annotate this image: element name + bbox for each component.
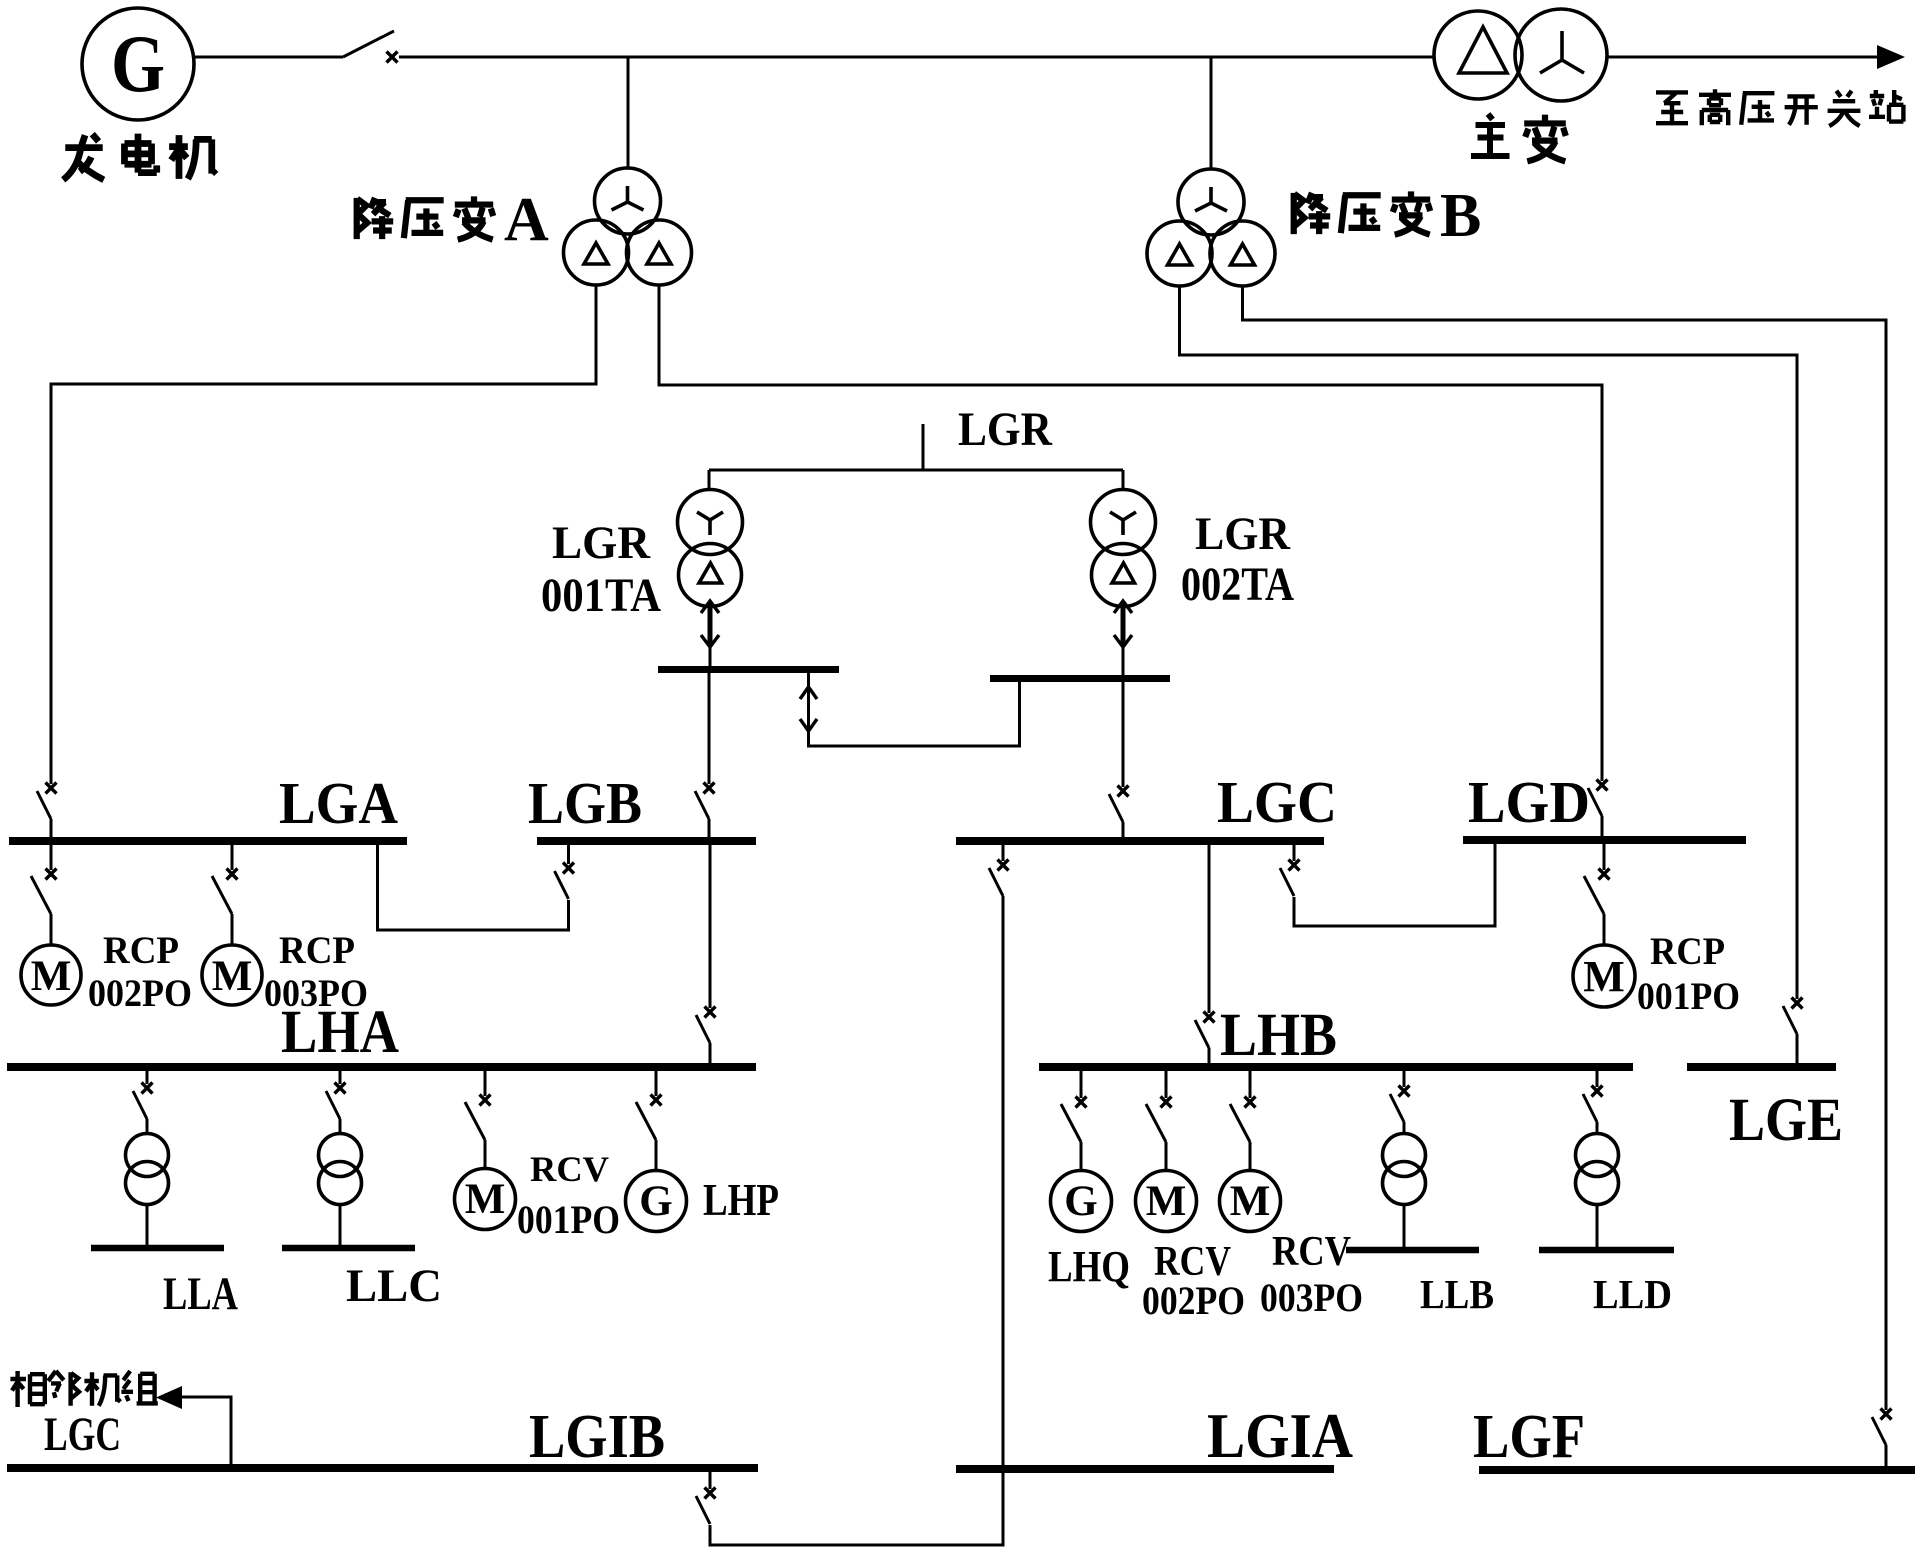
wire to adjacent unit with arrow: [156, 1386, 231, 1464]
label RCP 001PO: [1637, 930, 1740, 1018]
svg-text:003PO: 003PO: [1260, 1275, 1363, 1320]
wire to LLD transformer: [1596, 1122, 1599, 1134]
svg-text:LHB: LHB: [1220, 1002, 1337, 1069]
plug connector 001TA: [701, 601, 719, 647]
generator G LHQ: [1051, 1171, 1112, 1232]
wire drop to step-down transformer B: [1210, 57, 1213, 169]
label RCP 003PO: [264, 929, 368, 1015]
svg-text:RCP: RCP: [279, 929, 355, 972]
svg-text:002PO: 002PO: [88, 972, 192, 1015]
switch RCV 001PO: [465, 1095, 491, 1141]
wire 降压变A right winding to LGD riser: [659, 285, 1602, 781]
motor M RCP 002PO: [21, 945, 81, 1005]
main transformer 主变: [1434, 9, 1607, 101]
wire transformer to LLB bus: [1403, 1204, 1406, 1247]
label 发电机: [63, 134, 216, 180]
wire to LLA transformer: [146, 1119, 149, 1134]
wire connector to bus: [709, 647, 712, 666]
feeder RCP 003PO stub: [231, 844, 234, 870]
switch LGB incoming: [695, 783, 715, 820]
svg-text:G: G: [1064, 1178, 1097, 1225]
motor M RCV 001PO: [455, 1169, 516, 1230]
label LGE: [1729, 1087, 1843, 1154]
bus LGF: [1479, 1466, 1915, 1474]
wire main generator bus duct: [399, 56, 1434, 59]
label LGB: [528, 770, 642, 836]
label LGIB: [529, 1403, 665, 1471]
wire tie switch stub: [1293, 844, 1296, 861]
feeder RCP 002PO stub: [50, 844, 53, 870]
wire drop to step-down transformer A: [627, 57, 630, 168]
wire transformer to LLA bus: [146, 1204, 149, 1246]
feeder RCP 001PO stub: [1603, 843, 1606, 870]
wire 降压变A left winding to LGA riser: [51, 285, 596, 784]
switch LLA: [133, 1083, 153, 1120]
label LHQ: [1048, 1242, 1130, 1291]
wire transformer to LLC bus: [339, 1204, 342, 1246]
svg-text:RCP: RCP: [1650, 930, 1725, 973]
feeder LLD stub: [1596, 1071, 1599, 1087]
label 相邻机组: [10, 1371, 157, 1407]
svg-text:LGD: LGD: [1468, 769, 1590, 835]
svg-text:M: M: [212, 953, 253, 1000]
wire switch to LHA bus: [709, 1043, 712, 1063]
bus LLA: [91, 1245, 224, 1252]
label LLA: [163, 1268, 238, 1320]
wire 降压变B left winding to LGE riser: [1180, 285, 1798, 999]
wire to LLC transformer: [339, 1119, 342, 1134]
wire to generator: [655, 1140, 658, 1172]
label LLC: [346, 1260, 442, 1312]
label LGC adjacent: [44, 1408, 121, 1461]
switch LGC downtie: [989, 860, 1009, 897]
motor M RCV 002PO: [1136, 1171, 1197, 1232]
svg-text:LGIA: LGIA: [1207, 1400, 1353, 1471]
wire transformer to LLD bus: [1596, 1204, 1599, 1247]
switch LGC-LGD tie: [1280, 860, 1300, 897]
svg-text:LGF: LGF: [1473, 1403, 1585, 1471]
switch LLB: [1390, 1086, 1410, 1123]
label 主变: [1471, 114, 1566, 161]
switch LLC: [326, 1083, 346, 1120]
wire to motor: [50, 914, 53, 946]
bus LGIA: [956, 1465, 1334, 1473]
switch LLD: [1583, 1086, 1603, 1123]
transformer LLC: [319, 1134, 362, 1205]
label LHA: [281, 999, 399, 1066]
switch RCP 001PO: [1584, 869, 1610, 915]
wire LGC-LGD tie: [1294, 844, 1495, 926]
wire transformer to HV switchyard with arrow: [1607, 45, 1905, 69]
label LGR: [958, 403, 1053, 456]
transformer LGR 002TA: [1091, 490, 1156, 607]
svg-text:LGA: LGA: [279, 770, 398, 836]
wire LGR distribution: [709, 469, 1123, 472]
wire to motor: [1603, 914, 1606, 946]
svg-text:LGIB: LGIB: [529, 1403, 665, 1471]
svg-text:LLD: LLD: [1593, 1271, 1672, 1317]
wire LGC to LGIA and LGIB loop: [710, 896, 1003, 1545]
bus LLB: [1346, 1247, 1479, 1254]
svg-text:LLC: LLC: [346, 1260, 442, 1312]
svg-text:LGC: LGC: [44, 1408, 121, 1461]
feeder RCV 003PO stub: [1249, 1071, 1252, 1098]
transformer 降压变A: [564, 168, 692, 285]
svg-text:LLA: LLA: [163, 1268, 238, 1320]
wire LGR to 001TA: [708, 470, 711, 491]
label RCV 002PO: [1142, 1239, 1245, 1323]
wire to LLB transformer: [1403, 1122, 1406, 1134]
label LGR 002TA: [1181, 508, 1294, 611]
label LHP: [703, 1174, 779, 1225]
feeder RCV 001PO stub: [484, 1071, 487, 1096]
wire tie switch stub: [567, 844, 570, 864]
wire to motor: [1249, 1142, 1252, 1170]
wire switch to LGB bus: [708, 819, 711, 838]
switch RCV 002PO: [1146, 1097, 1172, 1143]
wire transfer tie left: [809, 673, 1020, 746]
label LHB: [1220, 1002, 1337, 1069]
svg-text:G: G: [111, 18, 165, 109]
svg-text:002PO: 002PO: [1142, 1278, 1245, 1323]
wire to motor: [231, 914, 234, 946]
bus LGB transfer section: [658, 666, 839, 673]
bus LGB: [537, 837, 756, 845]
wire connector to bus: [1122, 647, 1125, 675]
wire switch to LGD bus: [1601, 816, 1604, 837]
switch LHQ: [1061, 1097, 1087, 1143]
svg-text:LGB: LGB: [528, 770, 642, 836]
label RCV 003PO: [1260, 1229, 1363, 1320]
label LLB: [1420, 1271, 1494, 1317]
svg-text:RCV: RCV: [530, 1149, 609, 1189]
switch RCP 003PO: [212, 869, 238, 915]
svg-text:M: M: [31, 953, 72, 1000]
svg-text:M: M: [465, 1176, 506, 1223]
wire LGC to LHB: [1208, 844, 1211, 1013]
transformer LLB: [1383, 1134, 1426, 1205]
svg-text:RCV: RCV: [1272, 1229, 1351, 1275]
bus LGC: [956, 837, 1324, 845]
svg-text:001PO: 001PO: [1637, 975, 1740, 1018]
feeder LHQ stub: [1080, 1071, 1083, 1098]
transformer LLA: [126, 1134, 169, 1205]
label LGC: [1217, 769, 1337, 835]
switch LGF incoming: [1872, 1409, 1892, 1446]
wire switch to LGC bus: [1122, 822, 1125, 839]
svg-text:LHP: LHP: [703, 1174, 779, 1225]
transformer LGR 001TA: [678, 490, 743, 607]
label LGR 001TA: [541, 517, 661, 622]
feeder LLA stub: [146, 1071, 149, 1084]
feeder RCV 002PO stub: [1165, 1071, 1168, 1098]
wire transfer bus to LGC switch: [1122, 682, 1125, 787]
bus LLC: [282, 1245, 415, 1252]
switch RCP 002PO: [31, 869, 57, 915]
switch LHP: [636, 1095, 662, 1141]
bus LHB: [1039, 1063, 1633, 1071]
plug connector transfer tie: [800, 687, 817, 731]
wire LGB to LHA: [709, 844, 712, 1008]
bus LGA: [9, 837, 407, 845]
wire 降压变B right winding to LGF riser: [1243, 285, 1887, 1410]
disconnector generator breaker: [343, 31, 398, 63]
wire LGR to 002TA: [1122, 470, 1125, 491]
switch LHA incoming: [696, 1007, 716, 1044]
switch LGA incoming: [37, 783, 57, 820]
plug connector 002TA: [1114, 601, 1132, 647]
switch LHB incoming: [1195, 1012, 1215, 1049]
feeder LGC downtie stub: [1002, 844, 1005, 861]
label LGA: [279, 770, 398, 836]
label LGF: [1473, 1403, 1585, 1471]
label LLD: [1593, 1271, 1672, 1317]
wire transfer bus to LGB switch: [708, 673, 711, 784]
svg-text:LGE: LGE: [1729, 1087, 1843, 1154]
svg-text:LLB: LLB: [1420, 1271, 1494, 1317]
svg-text:001TA: 001TA: [541, 569, 661, 622]
switch RCV 003PO: [1230, 1097, 1256, 1143]
transformer LLD: [1576, 1134, 1619, 1205]
svg-text:LGR: LGR: [1195, 508, 1291, 560]
switch LGA-LGB tie: [555, 863, 575, 900]
svg-text:LHA: LHA: [281, 999, 399, 1066]
bus LGE: [1687, 1063, 1836, 1071]
label 至高压开关站: [1656, 89, 1903, 126]
svg-text:A: A: [504, 186, 549, 254]
switch LGD incoming: [1588, 780, 1608, 817]
wire switch to LHB bus: [1208, 1048, 1211, 1063]
generator G LHP: [626, 1171, 687, 1232]
generator G: [82, 8, 194, 120]
svg-text:M: M: [1230, 1178, 1271, 1225]
motor M RCP 003PO: [202, 945, 262, 1005]
svg-text:RCP: RCP: [103, 929, 179, 972]
svg-text:G: G: [639, 1178, 672, 1225]
wire to motor: [484, 1140, 487, 1168]
wire switch to LGA bus: [50, 819, 53, 838]
switch LGIB tie: [696, 1488, 716, 1525]
wire switch to LGE bus: [1796, 1034, 1799, 1063]
bus LGC transfer section: [990, 675, 1170, 682]
feeder LHP stub: [655, 1071, 658, 1096]
svg-text:LGR: LGR: [958, 403, 1053, 456]
transformer 降压变B: [1147, 169, 1275, 286]
svg-text:LHQ: LHQ: [1048, 1242, 1130, 1291]
switch LGC incoming: [1109, 786, 1129, 823]
wire generator to disconnector: [194, 56, 343, 59]
feeder LLB stub: [1403, 1071, 1406, 1087]
svg-text:LGC: LGC: [1217, 769, 1337, 835]
label 降压变B: [1294, 182, 1482, 250]
svg-text:001PO: 001PO: [517, 1197, 620, 1242]
bus LGIB: [7, 1464, 758, 1472]
bus LGD: [1463, 836, 1746, 844]
wire to motor: [1165, 1142, 1168, 1170]
svg-text:002TA: 002TA: [1181, 558, 1294, 611]
label LGD: [1468, 769, 1590, 835]
label RCV 001PO: [517, 1149, 620, 1242]
wire LGA-LGB tie: [378, 844, 569, 930]
svg-text:M: M: [1583, 952, 1625, 1001]
label RCP 002PO: [88, 929, 192, 1015]
wire LGIB bus to switch: [709, 1472, 712, 1489]
node LGR stub: [922, 424, 925, 470]
label 降压变A: [357, 186, 549, 254]
motor M RCV 003PO: [1220, 1171, 1281, 1232]
svg-text:LGR: LGR: [552, 517, 651, 569]
bus LHA: [7, 1063, 756, 1071]
bus LLD: [1539, 1247, 1674, 1254]
label LGIA: [1207, 1400, 1353, 1471]
switch LGE incoming: [1783, 998, 1803, 1035]
svg-text:M: M: [1146, 1178, 1187, 1225]
motor M RCP 001PO: [1573, 945, 1635, 1007]
wire switch to LGF bus: [1885, 1445, 1888, 1466]
svg-text:B: B: [1440, 182, 1481, 250]
feeder LLC stub: [339, 1071, 342, 1084]
wire to generator: [1080, 1142, 1083, 1170]
